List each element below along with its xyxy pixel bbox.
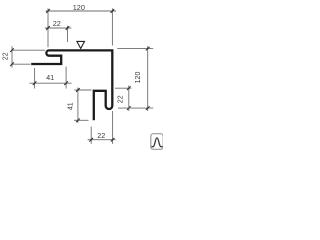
dim top 22: extension line right: [67, 26, 69, 42]
dim right 120: extension top: [117, 48, 153, 50]
dim top 120: extension line left: [47, 8, 49, 47]
dim top 22: tick left: [46, 26, 50, 30]
dim left 22: dimension line: [11, 46, 13, 67]
dim 41 vertical: tick bottom: [76, 119, 80, 123]
dim left 22: tick bottom: [10, 62, 14, 66]
svg-text:22: 22: [118, 95, 125, 103]
level mark triangle: [77, 41, 85, 48]
watermark logo curve: [152, 138, 163, 147]
dim top 120: tick right: [111, 9, 115, 13]
dim bottom 22: tick right: [111, 138, 115, 142]
svg-text:22: 22: [97, 131, 105, 140]
dim left 22: extension bottom: [12, 63, 31, 65]
dim top 22: dimension line: [45, 27, 72, 29]
dim bottom 22: tick left: [89, 138, 93, 142]
dim bottom 22: extension left: [90, 127, 92, 144]
shared bottom extension line: [118, 107, 153, 109]
dim right 22: dimension line: [128, 86, 130, 112]
dim right 22: tick bottom: [127, 106, 131, 110]
dim 41 horizontal: extension right: [65, 67, 67, 89]
dim 41 horizontal: tick right: [64, 81, 68, 85]
dim 41 horizontal: tick left: [33, 81, 37, 85]
svg-text:22: 22: [53, 19, 61, 28]
dim right 22: extension top: [115, 87, 131, 89]
dim bottom 22: dimension line: [88, 139, 116, 141]
profile outline (corner flashing cross-section): [31, 50, 112, 120]
watermark logo box: [151, 134, 163, 150]
svg-text:22: 22: [3, 52, 10, 60]
svg-text:120: 120: [135, 72, 142, 84]
dim top 22: tick right: [66, 26, 70, 30]
dim top 120: tick left: [46, 9, 50, 13]
dim right 120: tick bottom: [146, 106, 150, 110]
dim 41 horizontal: dimension line: [30, 82, 72, 84]
dim 41 vertical: extension top: [75, 89, 92, 91]
dim left 22: tick top: [10, 48, 14, 52]
dim right 120: dimension line: [147, 46, 149, 111]
dim 41 horizontal: extension left: [34, 68, 36, 89]
dim 41 vertical: extension bottom: [74, 119, 89, 121]
svg-text:41: 41: [46, 73, 54, 82]
dim top 120: extension line right: [111, 8, 113, 45]
dim left 22: extension top: [12, 49, 45, 51]
dim 41 vertical: dimension line: [77, 88, 79, 124]
dim 41 vertical: tick top: [76, 88, 80, 92]
dim bottom 22: extension right: [112, 111, 114, 144]
dim right 22: tick top: [127, 86, 131, 90]
dim top 120: dimension line: [46, 10, 116, 12]
svg-text:41: 41: [68, 102, 75, 110]
dim right 120: tick top: [146, 47, 150, 51]
svg-text:120: 120: [73, 3, 85, 12]
